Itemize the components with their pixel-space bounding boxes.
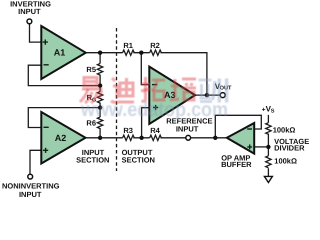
svg-text:S: S xyxy=(271,109,275,115)
svg-text:INPUT: INPUT xyxy=(19,190,42,198)
svg-text:R5: R5 xyxy=(86,65,96,74)
svg-text:INPUT: INPUT xyxy=(18,7,41,16)
svg-text:INPUT: INPUT xyxy=(176,125,199,134)
svg-text:R3: R3 xyxy=(123,126,133,135)
svg-text:www.edatop.com: www.edatop.com xyxy=(80,99,228,121)
svg-text:R2: R2 xyxy=(150,41,160,50)
svg-text:SECTION: SECTION xyxy=(122,155,155,164)
svg-text:A1: A1 xyxy=(54,48,66,58)
svg-text:100kΩ: 100kΩ xyxy=(273,126,296,135)
svg-text:R4: R4 xyxy=(150,126,160,135)
svg-text:BUFFER: BUFFER xyxy=(221,160,252,169)
svg-text:SECTION: SECTION xyxy=(76,155,109,164)
svg-text:100kΩ: 100kΩ xyxy=(274,157,297,166)
svg-text:DIVIDER: DIVIDER xyxy=(274,143,305,152)
svg-text:R1: R1 xyxy=(123,41,133,50)
svg-text:A2: A2 xyxy=(55,133,67,143)
